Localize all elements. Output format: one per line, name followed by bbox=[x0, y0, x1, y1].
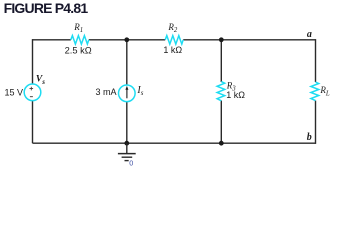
current source Is bbox=[119, 85, 136, 102]
resistor R1 bbox=[71, 36, 89, 45]
junction dot bottom branch1 bbox=[124, 141, 129, 146]
voltage source Vs bbox=[24, 84, 41, 101]
wire branch1 lower bbox=[126, 102, 128, 143]
minus sign bbox=[30, 96, 33, 98]
svg-text:15 V: 15 V bbox=[5, 87, 24, 97]
junction dot top branch1 bbox=[124, 37, 129, 42]
svg-text:a: a bbox=[307, 29, 312, 40]
wire left upper bbox=[32, 39, 34, 84]
junction dot bottom branch2 bbox=[219, 141, 224, 146]
arrow of current source bbox=[126, 89, 128, 98]
resistor R2 bbox=[165, 36, 183, 45]
svg-text:R1: R1 bbox=[73, 22, 83, 34]
wire right upper bbox=[315, 39, 317, 82]
svg-text:RL: RL bbox=[319, 85, 330, 98]
svg-text:3 mA: 3 mA bbox=[96, 87, 117, 97]
svg-text:0: 0 bbox=[129, 158, 133, 167]
ground stub wire bbox=[126, 143, 128, 153]
svg-text:1 kΩ: 1 kΩ bbox=[226, 90, 245, 100]
wire right lower bbox=[315, 101, 317, 144]
wire top-left segment bbox=[33, 39, 71, 41]
ground bbox=[118, 153, 136, 155]
svg-text:Is: Is bbox=[136, 85, 143, 97]
wire branch2 lower bbox=[220, 101, 222, 144]
svg-text:b: b bbox=[307, 132, 312, 143]
junction dot top branch2 bbox=[219, 37, 224, 42]
svg-text:R2: R2 bbox=[167, 22, 178, 34]
resistor RL bbox=[311, 82, 319, 101]
wire bottom bbox=[33, 142, 316, 144]
resistor R3 bbox=[217, 82, 225, 101]
svg-text:FIGURE P4.81: FIGURE P4.81 bbox=[4, 0, 89, 16]
svg-text:1 kΩ: 1 kΩ bbox=[163, 45, 182, 55]
wire left lower bbox=[32, 100, 34, 143]
wire branch2 upper bbox=[220, 40, 222, 82]
wire top-right segment bbox=[183, 39, 315, 41]
svg-text:Vs: Vs bbox=[36, 75, 45, 86]
svg-text:2.5 kΩ: 2.5 kΩ bbox=[65, 46, 92, 56]
plus sign bbox=[30, 87, 34, 91]
wire branch1 upper bbox=[126, 40, 128, 85]
wire top-middle segment bbox=[89, 39, 165, 41]
